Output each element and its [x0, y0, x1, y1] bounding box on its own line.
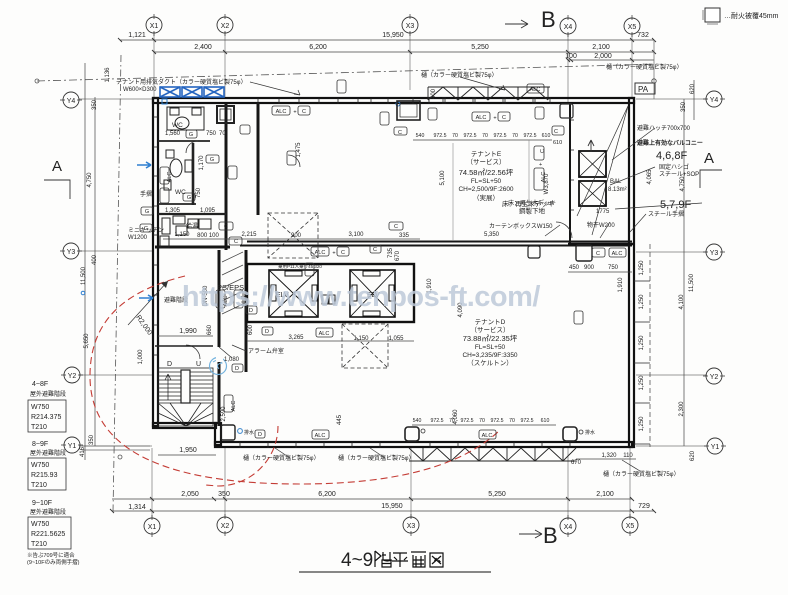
- svg-text:610: 610: [542, 133, 551, 139]
- svg-text:5,250: 5,250: [471, 44, 489, 51]
- svg-text:972.5: 972.5: [494, 133, 507, 139]
- svg-text:972.5: 972.5: [464, 133, 477, 139]
- svg-text:PA: PA: [638, 85, 649, 94]
- svg-text:C: C: [554, 129, 558, 135]
- svg-text:B: B: [543, 523, 558, 548]
- svg-text:WC: WC: [175, 189, 186, 196]
- svg-text:350: 350: [92, 99, 98, 110]
- svg-text:D: D: [265, 329, 269, 335]
- svg-text:620: 620: [690, 83, 696, 94]
- svg-text:乗用P11人乗り45,320: 乗用P11人乗り45,320: [278, 263, 322, 270]
- svg-text:1,250: 1,250: [639, 294, 645, 310]
- svg-text:610: 610: [541, 418, 550, 424]
- svg-text:4,750: 4,750: [87, 172, 93, 188]
- svg-text:ALC: ALC: [315, 250, 326, 256]
- svg-text:C: C: [302, 109, 306, 115]
- svg-text:1,170: 1,170: [199, 155, 205, 171]
- svg-text:ALC: ALC: [276, 109, 287, 115]
- svg-text:670: 670: [571, 460, 582, 466]
- svg-text:排水: 排水: [244, 429, 254, 436]
- svg-text:X2: X2: [221, 523, 230, 530]
- svg-text:R214.375: R214.375: [31, 414, 61, 421]
- svg-text:ALC: ALC: [541, 172, 547, 183]
- svg-text:70: 70: [512, 133, 518, 139]
- svg-text:1,000: 1,000: [138, 349, 144, 365]
- svg-text:1,250: 1,250: [639, 416, 645, 432]
- svg-text:X5: X5: [628, 24, 637, 31]
- svg-text:屋外避難階段: 屋外避難階段: [30, 508, 66, 516]
- svg-text:手摺: 手摺: [140, 190, 152, 198]
- svg-text:100: 100: [565, 53, 577, 60]
- svg-text:2,590: 2,590: [221, 406, 227, 422]
- svg-text:2,000: 2,000: [594, 53, 612, 60]
- svg-text:C: C: [224, 224, 228, 230]
- svg-text:15,950: 15,950: [381, 503, 403, 510]
- svg-text:8~9F: 8~9F: [32, 441, 48, 448]
- svg-text:Y1: Y1: [68, 443, 77, 450]
- svg-text:W750: W750: [31, 404, 49, 411]
- svg-text:Y2: Y2: [68, 373, 77, 380]
- svg-text:ALC: ALC: [530, 87, 541, 93]
- svg-text:スチール手摺: スチール手摺: [648, 210, 684, 218]
- svg-text:A: A: [704, 150, 714, 167]
- svg-text:70: 70: [482, 133, 488, 139]
- svg-text:Y2: Y2: [710, 374, 719, 381]
- svg-text:1,314: 1,314: [128, 504, 146, 511]
- svg-text:D: D: [167, 361, 172, 368]
- svg-text:1,250: 1,250: [639, 260, 645, 276]
- svg-text:2,400: 2,400: [194, 44, 212, 51]
- svg-text:X5: X5: [626, 523, 635, 530]
- svg-text:樋（カラー硬質塩ビ製75φ）: 樋（カラー硬質塩ビ製75φ）: [243, 454, 320, 462]
- svg-text:https://www.tenpos-ft.com/: https://www.tenpos-ft.com/: [182, 281, 541, 313]
- svg-text:73.88㎡/22.35坪: 73.88㎡/22.35坪: [463, 334, 518, 343]
- svg-text:G: G: [189, 132, 193, 138]
- svg-text:445: 445: [337, 414, 343, 425]
- svg-text:(9~10Fのみ両側手摺): (9~10Fのみ両側手摺): [27, 558, 80, 566]
- svg-text:ALC: ALC: [482, 433, 493, 439]
- svg-text:750: 750: [608, 265, 619, 271]
- svg-text:X4: X4: [564, 524, 573, 531]
- svg-text:R215.93: R215.93: [31, 472, 58, 479]
- svg-text:750: 750: [206, 131, 217, 137]
- svg-text:972.5: 972.5: [521, 418, 534, 424]
- svg-text:W750: W750: [31, 462, 49, 469]
- svg-text:1,250: 1,250: [639, 335, 645, 351]
- svg-text:樋（カラー硬質塩ビ製75φ）: 樋（カラー硬質塩ビ製75φ）: [606, 63, 683, 71]
- svg-text:G: G: [187, 195, 191, 201]
- svg-text:4,060: 4,060: [453, 409, 459, 425]
- svg-text:660: 660: [207, 324, 213, 335]
- svg-text:C: C: [540, 149, 546, 153]
- svg-text:70: 70: [219, 131, 226, 137]
- svg-text:固定ハシゴ: 固定ハシゴ: [659, 163, 689, 171]
- svg-text:C: C: [341, 250, 345, 256]
- svg-text:床：再生木デッキ: 床：再生木デッキ: [508, 199, 556, 207]
- svg-text:6,200: 6,200: [318, 491, 336, 498]
- svg-text:FL=SL+50: FL=SL+50: [475, 344, 506, 351]
- svg-text:避難上有効なバルコニー: 避難上有効なバルコニー: [636, 139, 703, 147]
- svg-text:排水: 排水: [585, 429, 595, 436]
- svg-text:15,950: 15,950: [382, 32, 404, 39]
- svg-text:アラーム弁室: アラーム弁室: [248, 347, 284, 355]
- svg-text:ALC: ALC: [315, 433, 326, 439]
- svg-text:C: C: [502, 115, 506, 121]
- svg-text:W1200: W1200: [128, 235, 148, 241]
- svg-text:2,215: 2,215: [241, 232, 257, 238]
- svg-text:750: 750: [196, 187, 202, 198]
- svg-text:11,500: 11,500: [81, 266, 87, 285]
- svg-text:樋（カラー硬質塩ビ製75φ）: 樋（カラー硬質塩ビ製75φ）: [421, 71, 498, 79]
- svg-text:70: 70: [452, 133, 458, 139]
- svg-text:G: G: [210, 157, 214, 163]
- svg-text:670: 670: [395, 250, 401, 261]
- svg-text:ALC: ALC: [231, 401, 237, 412]
- svg-text:R221.5625: R221.5625: [31, 531, 65, 538]
- svg-text:972.5: 972.5: [491, 418, 504, 424]
- svg-text:X2: X2: [221, 23, 230, 30]
- svg-text:CH=3,235/9F:3350: CH=3,235/9F:3350: [462, 352, 517, 359]
- svg-text:物干W200: 物干W200: [587, 221, 615, 229]
- svg-text:4~9: 4~9: [341, 550, 373, 571]
- svg-text:B: B: [541, 7, 556, 32]
- svg-text:1,950: 1,950: [179, 447, 197, 454]
- svg-text:ALC: ALC: [167, 172, 173, 183]
- svg-text:Y3: Y3: [710, 250, 719, 257]
- svg-text:800 100: 800 100: [197, 233, 219, 239]
- svg-text:1,910: 1,910: [618, 277, 624, 293]
- svg-text:+: +: [293, 110, 296, 116]
- svg-text:4~8F: 4~8F: [32, 381, 48, 388]
- svg-text:1,055: 1,055: [388, 336, 404, 342]
- svg-text:350: 350: [218, 491, 230, 498]
- svg-text:T210: T210: [31, 541, 47, 548]
- svg-text:+: +: [539, 162, 542, 168]
- svg-text:（サービス）: （サービス）: [471, 325, 510, 334]
- svg-text:74.58㎡/22.56坪: 74.58㎡/22.56坪: [459, 168, 514, 177]
- svg-text:C: C: [234, 239, 238, 245]
- svg-text:2,050: 2,050: [181, 491, 199, 498]
- svg-text:732: 732: [637, 32, 649, 39]
- svg-text:3,100: 3,100: [348, 232, 364, 238]
- svg-text:4,065: 4,065: [647, 169, 653, 185]
- svg-text:70: 70: [509, 418, 515, 424]
- svg-text:400: 400: [92, 254, 98, 265]
- svg-text:416: 416: [80, 446, 86, 457]
- svg-text:D: D: [235, 366, 239, 372]
- svg-text:FL=SL+50: FL=SL+50: [471, 178, 502, 185]
- svg-text:X4: X4: [564, 24, 573, 31]
- svg-text:ALC: ALC: [612, 251, 623, 257]
- svg-text:11,500: 11,500: [689, 273, 695, 292]
- svg-text:WC: WC: [172, 122, 183, 129]
- svg-text:ALC: ALC: [319, 331, 330, 337]
- svg-text:1,095: 1,095: [200, 208, 216, 214]
- svg-text:4,6,8F: 4,6,8F: [656, 150, 687, 162]
- svg-text:900: 900: [584, 265, 595, 271]
- svg-text:540: 540: [413, 418, 422, 424]
- svg-text:735: 735: [388, 247, 394, 258]
- svg-text:4,750: 4,750: [680, 176, 686, 192]
- svg-text:5,350: 5,350: [484, 232, 500, 238]
- svg-text:1,990: 1,990: [179, 328, 197, 335]
- svg-text:X3: X3: [407, 523, 416, 530]
- svg-text:W600×D300: W600×D300: [123, 87, 157, 93]
- svg-text:972.5: 972.5: [434, 133, 447, 139]
- svg-text:1,150: 1,150: [353, 336, 369, 342]
- svg-text:5,100: 5,100: [440, 170, 446, 186]
- svg-text:540: 540: [416, 133, 425, 139]
- svg-text:Y4: Y4: [67, 98, 76, 105]
- svg-text:ALC: ALC: [476, 115, 487, 121]
- svg-text:+: +: [493, 116, 496, 122]
- svg-text:350: 350: [89, 434, 95, 445]
- svg-text:C: C: [373, 247, 377, 253]
- svg-text:テナントE: テナントE: [471, 150, 502, 158]
- svg-text:カーテンボックスW150: カーテンボックスW150: [489, 222, 553, 230]
- svg-text:610: 610: [553, 140, 562, 146]
- svg-text:350: 350: [681, 101, 687, 112]
- svg-text:6,200: 6,200: [309, 44, 327, 51]
- svg-text:テナントD: テナントD: [475, 318, 506, 326]
- svg-text:テナント用排気ダクト（カラー硬質塩ビ製75φ）: テナント用排気ダクト（カラー硬質塩ビ製75φ）: [116, 78, 247, 86]
- svg-text:X1: X1: [150, 23, 159, 30]
- svg-text:1,560: 1,560: [165, 131, 181, 137]
- svg-text:1,136: 1,136: [105, 67, 111, 83]
- svg-text:972.5: 972.5: [461, 418, 474, 424]
- svg-text:Y1: Y1: [711, 444, 720, 451]
- svg-text:Y3: Y3: [67, 249, 76, 256]
- svg-text:450: 450: [569, 265, 580, 271]
- svg-text:（スケルトン）: （スケルトン）: [467, 359, 513, 367]
- svg-text:4,100: 4,100: [679, 294, 685, 310]
- svg-text:3,265: 3,265: [288, 335, 304, 341]
- svg-text:X1: X1: [148, 524, 157, 531]
- svg-text:スチール+SOP: スチール+SOP: [659, 171, 699, 178]
- svg-text:1,250: 1,250: [639, 375, 645, 391]
- svg-text:屋外避難階段: 屋外避難階段: [30, 449, 66, 457]
- svg-text:C: C: [596, 251, 600, 257]
- svg-text:X3: X3: [406, 23, 415, 30]
- svg-text:9~10F: 9~10F: [32, 500, 52, 507]
- svg-text:屋外避難階段: 屋外避難階段: [30, 390, 66, 398]
- svg-text:5,650: 5,650: [84, 333, 90, 349]
- svg-text:1,121: 1,121: [128, 32, 146, 39]
- svg-text:110: 110: [623, 453, 633, 459]
- svg-text:（サービス）: （サービス）: [467, 157, 506, 166]
- svg-text:…耐火被覆45mm: …耐火被覆45mm: [724, 11, 779, 20]
- svg-text:避難ハッチ700x700: 避難ハッチ700x700: [637, 124, 691, 132]
- svg-text:W750: W750: [31, 521, 49, 528]
- svg-text:335: 335: [399, 233, 410, 239]
- svg-text:T210: T210: [31, 424, 47, 431]
- svg-text:U: U: [196, 361, 201, 368]
- svg-text:400: 400: [431, 88, 437, 99]
- svg-text:樋（カラー硬質塩ビ製75φ）: 樋（カラー硬質塩ビ製75φ）: [338, 454, 415, 462]
- svg-text:樋（カラー硬質塩ビ製75φ）: 樋（カラー硬質塩ビ製75φ）: [603, 470, 680, 478]
- svg-text:2,300: 2,300: [679, 401, 685, 417]
- svg-text:A: A: [52, 158, 62, 175]
- svg-text:70: 70: [479, 418, 485, 424]
- svg-text:5,250: 5,250: [488, 491, 506, 498]
- svg-text:1,305: 1,305: [165, 208, 181, 214]
- svg-text:G: G: [144, 226, 148, 232]
- svg-text:T210: T210: [31, 482, 47, 489]
- svg-text:8.13m²: 8.13m²: [608, 187, 627, 193]
- svg-text:2,100: 2,100: [596, 491, 614, 498]
- svg-text:C: C: [398, 130, 402, 136]
- svg-text:D: D: [258, 432, 262, 438]
- svg-text:600: 600: [248, 324, 254, 335]
- svg-text:1,320: 1,320: [601, 453, 617, 459]
- svg-text:C: C: [394, 224, 398, 230]
- svg-text:G: G: [145, 209, 149, 215]
- svg-text:+: +: [332, 251, 335, 257]
- svg-text:972.5: 972.5: [524, 133, 537, 139]
- svg-text:鋼製下地: 鋼製下地: [519, 206, 546, 215]
- svg-text:729: 729: [638, 503, 650, 510]
- svg-text:CH=2,500/9F:2600: CH=2,500/9F:2600: [458, 186, 513, 193]
- svg-text:2,100: 2,100: [592, 44, 610, 51]
- svg-text:※告ぶ709号に適合: ※告ぶ709号に適合: [27, 551, 75, 559]
- svg-text:972.5: 972.5: [431, 418, 444, 424]
- svg-text:（実展）: （実展）: [473, 193, 499, 202]
- svg-text:620: 620: [690, 450, 696, 461]
- svg-text:Y4: Y4: [710, 97, 719, 104]
- svg-text:1,475: 1,475: [296, 142, 302, 158]
